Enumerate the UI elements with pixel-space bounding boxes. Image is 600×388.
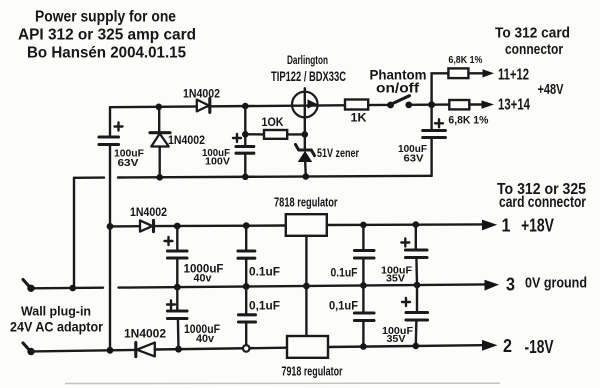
label C1 value	[114, 148, 145, 170]
node: riser bottom on AC-B	[107, 347, 114, 354]
wire: top rail after switch to lower 6.8K resistor	[409, 103, 450, 106]
node: D2 top on rail	[156, 104, 163, 111]
svg-text:1N4002: 1N4002	[168, 135, 205, 147]
transistor Q1 Darlington	[292, 88, 318, 149]
svg-text:To 312 card: To 312 card	[495, 25, 570, 42]
capacitor C8 1000uF 40v (-raw)	[167, 287, 187, 349]
node: C7 bottom on ground rail	[414, 282, 421, 289]
wire: +18V rail from U1 to output arrow	[327, 223, 482, 226]
wire: top rail node X/Y (left vertical top to switch)	[110, 105, 391, 107]
node: C2 bottom on mid rail	[242, 174, 249, 181]
capacitor C11 100uF 35V bottom-right	[402, 285, 428, 346]
regulator U1 7818	[286, 214, 327, 236]
svg-text:-18V: -18V	[525, 337, 554, 357]
svg-text:1K: 1K	[351, 113, 368, 125]
scan artifact line	[65, 382, 500, 384]
svg-text:card connector: card connector	[499, 194, 586, 211]
resistor R2 1K	[345, 100, 368, 110]
diode D3 1N4002 (+18 rectifier)	[140, 220, 286, 231]
capacitor C10 0,1uF bottom-right	[355, 285, 375, 346]
arrow: output 11+12	[483, 69, 495, 77]
wire: U1 ground pin to U2	[305, 236, 307, 336]
svg-text:7918 regulator: 7918 regulator	[282, 365, 343, 379]
svg-text:connector: connector	[505, 41, 563, 58]
svg-text:6,8K 1%: 6,8K 1%	[448, 55, 482, 66]
diode D1 1N4002 (top horizontal)	[197, 99, 210, 113]
node: C11 bottom on -18 rail	[413, 343, 420, 350]
node: regulators ground pin junction	[303, 283, 310, 290]
wire: left main vertical (AC-B riser x=110)	[109, 107, 111, 137]
plug: AC-B lower plug	[23, 343, 35, 355]
svg-text:13+14: 13+14	[498, 97, 530, 114]
resistor R4 6,8K lower	[449, 100, 482, 109]
wire: -18V rail from U2 to output arrow	[328, 345, 482, 347]
svg-text:Wall plug-in: Wall plug-in	[21, 304, 91, 319]
svg-text:Darlington: Darlington	[287, 53, 328, 67]
node: C5 bottom on ground rail	[243, 283, 250, 290]
wire: +18V rail from riser to D3	[110, 225, 140, 228]
svg-text:40v: 40v	[194, 273, 213, 285]
label C8 value	[184, 322, 220, 345]
switch S1 phantom on/off	[387, 96, 412, 109]
svg-text:51V zener: 51V zener	[317, 146, 359, 160]
svg-text:100V: 100V	[205, 156, 230, 168]
label C3 value	[398, 143, 428, 165]
label S1 Phantom on/off	[370, 67, 427, 96]
node: D2 bottom on mid rail	[156, 174, 163, 181]
node: zener anode on mid rail	[303, 173, 310, 180]
node: C4 bottom on ground rail	[174, 284, 181, 291]
svg-text:on/off: on/off	[376, 80, 419, 96]
node: 100uF top-right on +18 rail	[413, 221, 420, 228]
svg-text:Power supply for one: Power supply for one	[35, 9, 176, 26]
svg-text:0,1uF: 0,1uF	[329, 299, 358, 313]
arrow: output 2 -18V	[482, 340, 498, 351]
svg-text:7818 regulator: 7818 regulator	[274, 196, 338, 210]
node: C6 bottom on ground rail	[360, 282, 367, 289]
capacitor C3 100uF 63V (48V filter)	[423, 105, 446, 176]
wire: mid ground rail (left of riser gap)	[74, 176, 104, 179]
svg-text:63V: 63V	[404, 153, 424, 165]
node: 10K tap on C2 vertical	[242, 131, 249, 138]
capacitor C5 0.1uF top-left	[238, 226, 255, 287]
capacitor C7 100uF 35V top-right	[401, 225, 427, 285]
node: mid rail to ground junction	[69, 285, 76, 292]
svg-text:24V AC adaptor: 24V AC adaptor	[10, 320, 104, 335]
svg-text:1N4002: 1N4002	[130, 207, 167, 219]
capacitor C9 0,1uF bottom-left	[239, 287, 256, 349]
node: C9 bottom ring junction	[243, 345, 250, 352]
wire: ground rail from plug to riser gap	[32, 287, 103, 290]
regulator U2 7918	[287, 336, 328, 358]
label C2 value	[202, 147, 231, 168]
svg-text:0.1uF: 0.1uF	[331, 266, 358, 280]
svg-text:+48V: +48V	[538, 82, 564, 98]
plug: AC-A upper plug	[23, 280, 35, 292]
capacitor C2 100uF 100V	[233, 106, 254, 177]
svg-text:1: 1	[502, 216, 511, 236]
svg-text:+18V: +18V	[521, 216, 554, 236]
node: 0.1uF top-right on +18 rail	[360, 222, 367, 229]
svg-text:0V ground: 0V ground	[525, 276, 587, 292]
svg-text:TIP122 / BDX33C: TIP122 / BDX33C	[271, 68, 346, 84]
resistor R1 10K	[245, 130, 304, 139]
svg-text:3: 3	[506, 275, 515, 295]
node: 0.1uF top-left on +18 rail	[243, 222, 250, 229]
capacitor C1 100uF 63V (series doubler cap)	[99, 123, 123, 145]
node: AC-B to D3 riser junction	[107, 223, 114, 230]
node: C8 bottom on -18 rail	[175, 346, 182, 353]
svg-text:1OK: 1OK	[262, 117, 285, 129]
label C4 value	[184, 262, 224, 285]
capacitor C6 0.1uF top-right	[355, 225, 375, 286]
svg-text:0,1uF: 0,1uF	[249, 299, 280, 313]
node: base junction	[302, 131, 309, 138]
svg-text:2: 2	[503, 336, 512, 356]
title text	[18, 9, 196, 62]
label C7 value	[381, 265, 413, 285]
node: node Y rail junction with C2	[242, 103, 249, 110]
svg-text:1N4002: 1N4002	[124, 327, 166, 341]
svg-text:11+12: 11+12	[498, 67, 529, 84]
label C11 value	[382, 325, 414, 345]
zener diode Z1 51V	[296, 145, 315, 177]
svg-text:6,8K 1%: 6,8K 1%	[448, 115, 488, 127]
node: 1000uF top on +18 rail	[174, 223, 181, 230]
wire: left vertical below C1 down to lower AC line	[109, 145, 111, 351]
diode D2 1N4002 (vertical clamp)	[150, 107, 170, 178]
wire: ground rail from gap to output arrow	[119, 284, 486, 287]
arrow: output 13+14	[482, 100, 495, 108]
node: 48V junction after switch	[428, 101, 435, 108]
svg-text:63V: 63V	[118, 157, 139, 169]
svg-text:0.1uF: 0.1uF	[249, 265, 280, 279]
svg-text:1N4002: 1N4002	[183, 89, 220, 101]
label To 312 card connector	[495, 25, 570, 59]
wire: left L drop from mid rail to AC-A/ground	[73, 178, 75, 288]
diode D4 1N4002 (-18 rectifier)	[136, 343, 287, 357]
svg-text:35V: 35V	[387, 333, 406, 345]
arrow: output 3 0V ground	[485, 280, 500, 291]
arrow: output 1 +18V	[482, 220, 497, 231]
wire: mid ground rail (right of riser gap)	[118, 176, 432, 178]
capacitor C4 1000uF 40v (+raw)	[165, 226, 188, 287]
svg-text:35V: 35V	[386, 273, 405, 285]
svg-text:API 312 or 325 amp card: API 312 or 325 amp card	[18, 27, 196, 44]
node: C10 bottom on -18 rail	[360, 343, 367, 350]
wire: branch up to upper 6.8K	[432, 73, 449, 104]
svg-text:40v: 40v	[196, 333, 215, 345]
resistor R3 6,8K upper	[448, 68, 483, 78]
label To 312 or 325 card connector	[497, 181, 586, 211]
wire: AC-B lower line from plug to D4	[32, 350, 136, 352]
svg-text:Bo Hansén 2004.01.15: Bo Hansén 2004.01.15	[27, 45, 186, 62]
